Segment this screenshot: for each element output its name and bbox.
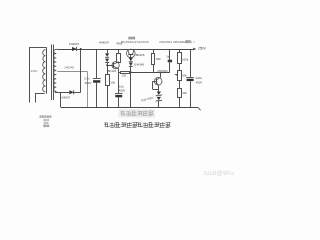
diode D5 1N4148 bbox=[129, 58, 133, 62]
Q3 emitter wire bbox=[158, 85, 160, 91]
note line3 bbox=[44, 122, 49, 124]
svg-text:1N4148: 1N4148 bbox=[134, 63, 145, 67]
capacitor C1 3.3u bbox=[93, 79, 101, 83]
svg-text:250V: 250V bbox=[198, 47, 207, 51]
zener Z2 bbox=[156, 97, 162, 102]
Q2 emitter lead bbox=[114, 67, 119, 69]
label D2 1N4007 bbox=[60, 96, 71, 100]
resistor R7 box bbox=[178, 89, 182, 98]
output arrow bbox=[190, 48, 196, 51]
wire node to bottom rail bbox=[130, 72, 132, 107]
label C1 3.3u 450V bbox=[84, 77, 91, 85]
wire divider top bbox=[179, 49, 181, 53]
wire 33k top bbox=[153, 49, 155, 54]
wire node up to rail bbox=[80, 48, 82, 92]
label 1N4007 bias diodes bbox=[99, 40, 110, 44]
diode D3 bbox=[105, 53, 109, 57]
resistor R6 box bbox=[178, 53, 182, 64]
svg-text:450V: 450V bbox=[84, 81, 91, 85]
svg-text:2SC2611: 2SC2611 bbox=[159, 40, 172, 44]
label zener 1N4749 bbox=[140, 96, 153, 103]
transformer secondary winding bbox=[54, 49, 58, 92]
svg-text:220V: 220V bbox=[31, 69, 38, 73]
label R7 10k bbox=[182, 91, 187, 95]
resistor R5 box bbox=[168, 60, 172, 63]
label RP 50k bbox=[182, 74, 187, 78]
label R6 100k bbox=[182, 57, 189, 61]
label R1 10k bbox=[110, 81, 115, 85]
potentiometer RP box bbox=[178, 71, 182, 81]
transistor Q2 circle bbox=[112, 62, 119, 69]
wire R7 to bottom rail bbox=[179, 98, 181, 107]
label 240V tap bbox=[64, 66, 74, 70]
Q1 collector lead bbox=[128, 49, 130, 55]
resistor R2 box bbox=[117, 54, 121, 63]
label Q3 2N5034 bbox=[157, 69, 168, 73]
transistor Q3 circle bbox=[154, 78, 162, 86]
Q1 base bar bbox=[128, 54, 133, 56]
diode D1 1N4007 top bbox=[72, 47, 76, 51]
corner watermark bbox=[204, 170, 234, 177]
Q3 collector lead bbox=[157, 72, 161, 80]
Q3 emitter lead bbox=[157, 83, 159, 86]
svg-text:1N4007: 1N4007 bbox=[60, 96, 71, 100]
label Q2 BF422 bbox=[108, 69, 117, 73]
wire C1 branch bbox=[96, 49, 98, 107]
transformer T1 primary loop bbox=[29, 47, 44, 102]
svg-text:400V: 400V bbox=[196, 80, 203, 84]
secondary center tap wire bbox=[57, 71, 87, 73]
svg-text:BF422: BF422 bbox=[108, 69, 117, 73]
note line2 bbox=[43, 119, 49, 121]
note line1 bbox=[40, 115, 52, 118]
resistor R3 box bbox=[121, 72, 130, 74]
label R4 33k bbox=[156, 57, 161, 61]
wire R1 to bottom rail bbox=[107, 86, 109, 108]
bottom rail wire bbox=[61, 107, 198, 109]
label R3 130 bbox=[121, 73, 126, 77]
label 220V primary bbox=[31, 69, 38, 73]
label R2 430k bbox=[116, 41, 123, 45]
top rail wire bbox=[57, 49, 191, 51]
label Q1 BD425 bbox=[136, 53, 145, 57]
wire zener to bottom rail bbox=[158, 101, 160, 107]
svg-text:33k: 33k bbox=[156, 57, 161, 61]
wire output branch bbox=[190, 49, 192, 107]
label Q1 type list bbox=[121, 40, 195, 44]
wire R2 top bbox=[118, 49, 120, 53]
label D1 1N4007 bbox=[69, 42, 80, 46]
Q3 base wire bbox=[153, 81, 159, 89]
wire 33k to driver node bbox=[153, 64, 155, 72]
svg-text:240V45: 240V45 bbox=[64, 66, 74, 70]
Q3 base bar bbox=[156, 79, 158, 84]
Q2 base wire bbox=[106, 64, 114, 66]
resistor R4 box bbox=[152, 54, 155, 65]
label Q1 type line1 bbox=[128, 37, 135, 40]
label C2 10u 450V bbox=[119, 85, 126, 93]
wire D4 to base node bbox=[107, 63, 109, 75]
svg-text:tusb@W/m: tusb@W/m bbox=[204, 170, 234, 177]
wire RP-R7 bbox=[179, 80, 181, 88]
diode D2 1N4007 bottom bbox=[69, 90, 73, 94]
wire R2 to Q2 collector bbox=[118, 61, 120, 64]
watermark band bbox=[119, 109, 156, 117]
svg-text:BF469A(2SC2023: BF469A(2SC2023 bbox=[121, 40, 149, 44]
transistor Q1 circle bbox=[127, 49, 136, 58]
label output 250V bbox=[198, 47, 207, 51]
bottom rail end tick bbox=[198, 107, 201, 110]
svg-text:2N5034: 2N5034 bbox=[157, 69, 168, 73]
diode D4 bbox=[105, 59, 109, 63]
Q2 collector lead bbox=[114, 62, 119, 64]
svg-text:1N4007: 1N4007 bbox=[69, 42, 80, 46]
svg-text:3DG180(: 3DG180( bbox=[173, 40, 186, 44]
Q1 base drop wire bbox=[130, 55, 132, 58]
diode D6 1N4148 bbox=[129, 63, 133, 67]
wire D2 to node bbox=[73, 92, 81, 94]
svg-text:10k: 10k bbox=[110, 81, 115, 85]
RP wiper arrow bbox=[175, 74, 178, 76]
wire secondary bottom to D2 bbox=[55, 92, 69, 94]
wire 1k top bbox=[169, 49, 171, 60]
svg-text:100k: 100k bbox=[182, 57, 189, 61]
wire bottom-left drop bbox=[60, 92, 62, 107]
svg-text:) >: ) > bbox=[191, 40, 195, 44]
wire D6 to node bbox=[130, 67, 132, 74]
wire driver node bbox=[119, 72, 170, 74]
Q1 emitter lead bbox=[132, 49, 134, 55]
label C3 220u 400V bbox=[196, 76, 203, 84]
caption text bbox=[104, 122, 170, 128]
note line4 bbox=[43, 125, 49, 128]
wire center tap return bbox=[87, 71, 89, 107]
capacitor C2 10u bbox=[115, 94, 123, 98]
label 1N4148 bbox=[134, 63, 145, 67]
svg-text:450V: 450V bbox=[119, 89, 126, 93]
wire Q2 emitter down bbox=[118, 69, 120, 93]
capacitor C3 220u bbox=[186, 78, 193, 82]
svg-text:BD425: BD425 bbox=[136, 53, 145, 57]
label 1k bbox=[166, 54, 170, 58]
Q2 base bar bbox=[113, 63, 115, 68]
svg-text:130: 130 bbox=[121, 73, 126, 77]
svg-text:50k: 50k bbox=[182, 74, 187, 78]
svg-text:10k: 10k bbox=[182, 91, 187, 95]
transformer primary winding bbox=[43, 47, 47, 93]
resistor R1 box bbox=[106, 75, 110, 86]
wire R6-RP bbox=[179, 63, 181, 70]
wire C2 to bottom rail bbox=[118, 97, 120, 107]
svg-text:4N4007: 4N4007 bbox=[99, 40, 110, 44]
wire 1k to driver node bbox=[169, 62, 171, 72]
wire D3 chain top bbox=[107, 49, 109, 53]
transformer core bbox=[52, 45, 54, 101]
zener Z1 bbox=[156, 92, 162, 97]
